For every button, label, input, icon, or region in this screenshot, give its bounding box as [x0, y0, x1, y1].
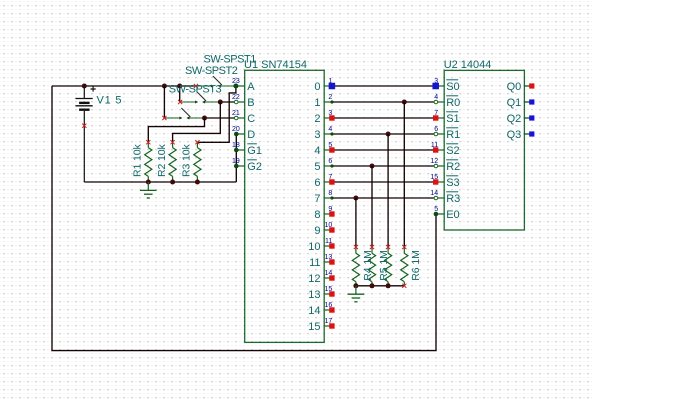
U1 pin name G2 — [247, 160, 262, 173]
switch SW-SPST3 — [162, 108, 204, 120]
U2 pin Q3 stub — [524, 133, 530, 135]
U1 output pin number 16 — [325, 302, 333, 309]
U1 pin G2 stub — [236, 165, 245, 167]
U1 output 13 stub — [324, 293, 332, 295]
wire pin B net to R2 top — [173, 102, 221, 142]
svg-text:Q1: Q1 — [507, 97, 522, 109]
svg-text:Q3: Q3 — [507, 129, 522, 141]
wire net row 1 — [331, 101, 436, 103]
ground under R1 — [140, 182, 157, 198]
indicator blue square out0 — [329, 83, 336, 90]
U2 pin R3 stub — [436, 197, 444, 199]
U1 pin number 22 — [232, 94, 240, 101]
U2 pin Q0 stub — [524, 85, 530, 87]
U1 output 9 stub — [324, 229, 332, 231]
U1 output pin number 1 — [328, 78, 332, 85]
pin marker out3 — [330, 132, 333, 135]
wire net row 6 — [331, 181, 436, 183]
U2 pin number 5 — [434, 206, 438, 213]
U1 output name 14 — [308, 305, 320, 317]
svg-text:D: D — [247, 129, 255, 141]
indicator red square out15 — [329, 323, 334, 328]
wire SW2 to pin B — [220, 101, 236, 103]
label U1 SN74154 — [244, 59, 307, 71]
label R3 10k — [181, 143, 193, 177]
indicator square Q3 — [529, 131, 534, 136]
label V1 5 — [97, 95, 123, 107]
resistor R6 1M — [385, 247, 392, 286]
wire net row 7 — [331, 197, 436, 199]
U2 pin name R2 — [446, 160, 460, 173]
svg-text:14: 14 — [430, 190, 438, 197]
U2 pin R0 dot — [434, 100, 438, 104]
svg-text:0: 0 — [314, 81, 320, 93]
U1 output name 0 — [314, 81, 320, 93]
svg-text:G2: G2 — [247, 161, 262, 173]
junction row 5 — [370, 164, 375, 169]
svg-text:6: 6 — [328, 158, 332, 165]
svg-text:A: A — [247, 81, 255, 93]
svg-text:R5 1M: R5 1M — [378, 250, 390, 280]
U2 pin name R1 — [446, 128, 460, 141]
wire net row 3 — [331, 133, 436, 135]
svg-text:S3: S3 — [446, 177, 459, 189]
op-amp U1 box (IC SN74154) — [245, 70, 325, 342]
wire feed to SW3 left — [163, 86, 165, 118]
U2 pin R3 dot — [434, 196, 438, 200]
label R6 1M — [410, 250, 422, 280]
svg-text:10: 10 — [308, 241, 320, 253]
U1 pin number 20 — [232, 126, 240, 133]
svg-text:S2: S2 — [446, 145, 459, 157]
wire D/G1/G2 tie-down — [235, 134, 237, 182]
svg-text:2: 2 — [314, 113, 320, 125]
U2 pin R1 dot — [434, 132, 438, 136]
U2 pin E0 dot — [434, 212, 439, 217]
wire 1M bottom rail — [356, 285, 404, 287]
op-amp U2 box (IC 14044) — [444, 70, 524, 230]
U1 output name 11 — [309, 257, 320, 269]
U1 pin G1 stub — [236, 149, 245, 151]
svg-text:14: 14 — [308, 305, 320, 317]
svg-text:R1 10k: R1 10k — [132, 143, 144, 177]
wire battery+ top rail — [52, 85, 196, 87]
U1 output 8 stub — [324, 213, 332, 215]
wire pin A net to R3 top — [197, 86, 236, 142]
U1 output 2 stub — [324, 117, 332, 119]
U1 pin G2 dot — [234, 164, 239, 169]
U2 pin S2 stub — [436, 149, 444, 151]
U2 pin number 4 — [434, 94, 438, 101]
indicator red square S1 — [433, 115, 438, 120]
U1 pin B stub — [236, 101, 245, 103]
terminal marker R2 top — [171, 140, 175, 144]
U1 output name 9 — [314, 225, 320, 237]
label R2 10k — [156, 143, 168, 177]
svg-text:R1: R1 — [446, 129, 460, 141]
U1 output name 10 — [308, 241, 320, 253]
U2 pin S1 stub — [436, 117, 444, 119]
U1 pin name D — [247, 129, 255, 141]
U1 pin A stub — [236, 85, 245, 87]
U1 output pin number 4 — [328, 126, 332, 133]
svg-text:V1 5: V1 5 — [97, 95, 123, 107]
indicator red square out4 — [329, 147, 334, 152]
wire drop to pull resistor x388 — [387, 134, 389, 247]
label SW-SPST3 — [169, 84, 222, 96]
U2 pin name S0 — [446, 80, 459, 93]
wire SW3 to pin C — [205, 117, 237, 119]
label R5 1M — [378, 250, 390, 280]
svg-text:4: 4 — [328, 126, 332, 133]
pin marker out5 — [330, 164, 333, 167]
U2 pin name R0 — [446, 96, 460, 109]
terminal marker R7 top — [402, 245, 406, 249]
indicator square Q0 — [529, 83, 534, 88]
U1 pin A dot — [233, 84, 238, 89]
U1 pin number 19 — [232, 158, 240, 165]
wire outer loop left/bottom/right to E0 — [52, 86, 436, 351]
indicator square Q1 — [529, 99, 534, 104]
svg-text:8: 8 — [328, 190, 332, 197]
junction R4 bottom — [353, 283, 358, 288]
svg-text:C: C — [247, 113, 255, 125]
U1 output 0 stub — [324, 85, 332, 87]
indicator red square out14 — [329, 307, 334, 312]
U1 output name 2 — [314, 113, 320, 125]
svg-text:11: 11 — [309, 257, 320, 269]
indicator red square out2 — [329, 115, 334, 120]
U1 pin name G1 — [247, 144, 262, 157]
U2 pin name Q1 — [507, 97, 522, 109]
svg-text:R2 10k: R2 10k — [156, 143, 168, 177]
U2 pin number 11 — [431, 142, 438, 149]
U2 pin number 3 — [434, 78, 438, 85]
svg-text:R3 10k: R3 10k — [181, 143, 193, 177]
U2 pin R0 stub — [436, 101, 444, 103]
svg-text:B: B — [247, 97, 254, 109]
U1 output pin number 7 — [328, 174, 332, 181]
U2 pin name Q0 — [507, 81, 522, 93]
label SW-SPST2 — [185, 65, 238, 77]
U1 output name 6 — [314, 177, 320, 189]
indicator red square out6 — [329, 179, 334, 184]
U2 pin Q2 stub — [524, 117, 530, 119]
U1 output name 3 — [314, 129, 320, 141]
svg-text:R0: R0 — [446, 97, 460, 109]
junction row 3 — [386, 132, 391, 137]
U1 output name 12 — [308, 273, 320, 285]
U2 pin name Q3 — [507, 129, 522, 141]
U2 pin S0 stub — [436, 85, 444, 87]
U2 pin Q1 stub — [524, 101, 530, 103]
U1 output name 1 — [314, 97, 320, 109]
U2 pin number 14 — [430, 190, 438, 197]
U1 output 11 stub — [324, 261, 332, 263]
resistor R5 1M — [368, 247, 375, 286]
svg-text:7: 7 — [314, 193, 320, 205]
U1 output pin number 14 — [325, 270, 333, 277]
junction dot feed SW3 — [162, 84, 167, 89]
U1 output 15 stub — [324, 325, 332, 327]
U1 pin D stub — [236, 133, 245, 135]
resistor R2 — [169, 142, 176, 182]
U1 output pin number 15 — [325, 286, 333, 293]
svg-text:R6 1M: R6 1M — [410, 250, 422, 280]
U2 pin R2 stub — [436, 165, 444, 167]
svg-text:S1: S1 — [446, 113, 459, 125]
switch SW-SPST1 — [194, 76, 236, 88]
resistor R4 1M — [352, 247, 359, 286]
U1 output pin number 6 — [328, 158, 332, 165]
indicator red square out8 — [329, 211, 334, 216]
U2 pin name Q2 — [507, 113, 522, 125]
label R1 10k — [132, 143, 144, 177]
wire drop to pull resistor x372 — [371, 166, 373, 247]
svg-text:SW-SPST3: SW-SPST3 — [169, 84, 222, 96]
svg-text:G1: G1 — [247, 145, 262, 157]
switch SW-SPST2 — [178, 92, 220, 104]
U1 output name 4 — [314, 145, 320, 157]
indicator red square out11 — [329, 259, 334, 264]
U2 pin E0 stub — [436, 213, 444, 215]
U1 pin D dot — [234, 132, 239, 137]
U1 pin name B — [247, 97, 254, 109]
indicator red square S2 — [433, 147, 438, 152]
svg-text:13: 13 — [308, 289, 320, 301]
U1 pin G1 dot — [234, 148, 239, 153]
wire net row 2 — [331, 117, 436, 119]
junction battery+ on top rail — [82, 84, 87, 89]
junction SW2 right — [218, 100, 223, 105]
svg-text:U1 SN74154: U1 SN74154 — [244, 59, 307, 71]
U1 output name 15 — [308, 321, 320, 333]
battery terminal marker — [82, 124, 86, 128]
indicator red square out12 — [329, 275, 334, 280]
U1 pin number 23 — [232, 78, 240, 85]
U1 output pin number 5 — [328, 142, 332, 149]
wire net row 0 — [331, 85, 436, 87]
U1 pin name C — [247, 113, 255, 125]
U1 output 12 stub — [324, 277, 332, 279]
junction R3 bottom — [195, 180, 200, 185]
ground under 1M rail — [348, 286, 365, 302]
U2 pin name S3 — [446, 176, 459, 189]
svg-text:5: 5 — [314, 161, 320, 173]
svg-text:4: 4 — [314, 145, 320, 157]
wire feed to SW2 left — [179, 86, 181, 102]
U2 pin S3 stub — [436, 181, 444, 183]
U1 output 1 stub — [324, 101, 332, 103]
wire drop to pull resistor x404 — [403, 102, 405, 247]
svg-text:6: 6 — [314, 177, 320, 189]
resistor R7 1M — [401, 247, 408, 286]
U2 pin number 15 — [430, 174, 438, 181]
U2 pin name E0 — [446, 209, 459, 221]
U1 output pin number 13 — [325, 254, 333, 261]
U1 pin number 18 — [232, 142, 240, 149]
svg-text:U2 14044: U2 14044 — [444, 59, 492, 71]
label U2 14044 — [444, 59, 492, 71]
U1 output name 7 — [314, 193, 320, 205]
junction SW3 right — [202, 116, 207, 121]
svg-text:15: 15 — [308, 321, 320, 333]
junction dot feed SW2 — [177, 84, 182, 89]
junction R5 bottom — [370, 283, 375, 288]
indicator red square out10 — [329, 243, 334, 248]
svg-text:9: 9 — [314, 225, 320, 237]
U1 output pin number 8 — [328, 190, 332, 197]
svg-text:8: 8 — [314, 209, 320, 221]
U1 output name 13 — [308, 289, 320, 301]
svg-text:SW-SPST2: SW-SPST2 — [185, 65, 238, 77]
U1 output pin number 17 — [325, 318, 333, 325]
svg-text:R2: R2 — [446, 161, 460, 173]
svg-text:R3: R3 — [446, 193, 460, 205]
svg-text:2: 2 — [328, 94, 332, 101]
U2 pin R1 stub — [436, 133, 444, 135]
label R4 1M — [362, 250, 374, 280]
junction R2 bottom — [170, 180, 175, 185]
U1 output pin number 11 — [325, 238, 332, 245]
U2 pin number 7 — [434, 110, 438, 117]
junction row 7 — [353, 196, 358, 201]
wire net row 5 — [331, 165, 436, 167]
U2 pin name S1 — [446, 112, 459, 125]
U1 output 5 stub — [324, 165, 332, 167]
U1 output 3 stub — [324, 133, 332, 135]
wire net row 4 — [331, 149, 436, 151]
U1 output pin number 9 — [328, 206, 332, 213]
U1 output 6 stub — [324, 181, 332, 183]
indicator red square out9 — [329, 227, 334, 232]
junction R6 bottom — [386, 283, 391, 288]
svg-text:1: 1 — [314, 97, 320, 109]
wire drop to pull resistor x355 — [355, 198, 357, 247]
U2 pin number 12 — [430, 158, 438, 165]
svg-text:12: 12 — [430, 158, 438, 165]
indicator red square S3 — [433, 179, 438, 184]
U1 pin B dot — [234, 100, 238, 104]
U1 output 7 stub — [324, 197, 332, 199]
svg-text:R4 1M: R4 1M — [362, 250, 374, 280]
U1 pin number 21 — [232, 110, 240, 117]
terminal marker rail end — [402, 284, 406, 288]
svg-text:12: 12 — [308, 273, 320, 285]
U1 pin C dot — [234, 116, 238, 120]
U1 pin name A — [247, 81, 255, 93]
U1 output 10 stub — [324, 245, 332, 247]
label SW-SPST1 — [204, 54, 257, 66]
junction row 1 — [402, 100, 407, 105]
svg-text:S0: S0 — [446, 81, 459, 93]
indicator blue square S0 — [432, 83, 439, 90]
U1 output name 8 — [314, 209, 320, 221]
wire ground rail y182 — [84, 181, 236, 183]
svg-text:E0: E0 — [446, 209, 459, 221]
svg-text:Q2: Q2 — [507, 113, 522, 125]
U2 pin number 6 — [434, 126, 438, 133]
indicator red square out13 — [329, 291, 334, 296]
U2 pin name R3 — [446, 192, 460, 205]
U1 pin C stub — [236, 117, 245, 119]
U1 output pin number 3 — [328, 110, 332, 117]
svg-text:Q0: Q0 — [507, 81, 522, 93]
resistor R1 — [145, 142, 152, 182]
svg-text:3: 3 — [314, 129, 320, 141]
junction R1 bottom — [146, 180, 151, 185]
terminal marker R6 top — [386, 245, 390, 249]
terminal marker R3 top — [195, 140, 199, 144]
U2 pin R2 dot — [434, 164, 438, 168]
U1 output 14 stub — [324, 309, 332, 311]
battery V1 — [75, 86, 95, 182]
terminal marker R1 top — [146, 140, 150, 144]
terminal marker R4 top — [354, 245, 358, 249]
wire pin C net to R1 top — [148, 118, 204, 142]
U1 output 4 stub — [324, 149, 332, 151]
pin marker out7 — [330, 196, 333, 199]
U1 output pin number 2 — [328, 94, 332, 101]
U1 output pin number 10 — [325, 222, 333, 229]
pin marker out1 — [330, 100, 333, 103]
indicator square Q2 — [529, 115, 534, 120]
U2 pin name S2 — [446, 144, 459, 157]
terminal marker R5 top — [370, 245, 374, 249]
resistor R3 — [194, 142, 201, 182]
U1 output name 5 — [314, 161, 320, 173]
